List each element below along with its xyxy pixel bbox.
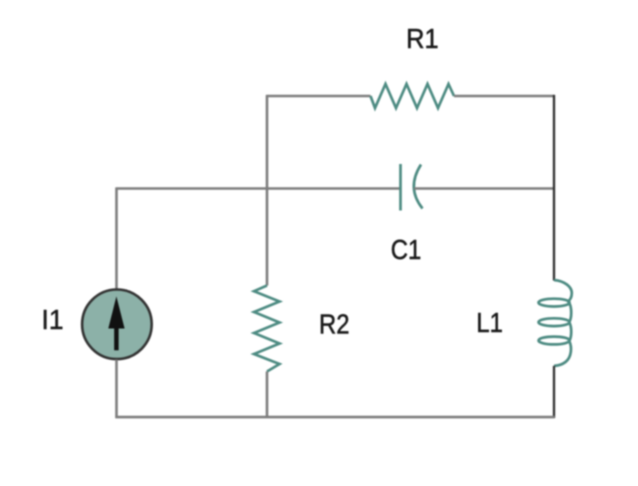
svg-text:I1: I1 <box>42 304 64 335</box>
resistor R2 <box>254 286 280 372</box>
wire: middle wire right segment <box>414 187 554 190</box>
current source I1 <box>82 290 152 360</box>
capacitor C1 <box>401 164 423 211</box>
inductor L1 <box>539 280 572 366</box>
wire: top wire left segment <box>267 95 371 98</box>
svg-text:R1: R1 <box>406 23 439 54</box>
svg-text:L1: L1 <box>476 307 503 338</box>
wire: left wire upper segment <box>115 187 118 291</box>
wire: R2 branch lower segment <box>266 372 269 419</box>
wire: right wire lower segment <box>553 366 555 418</box>
wire: right wire upper segment <box>553 95 555 281</box>
svg-text:R2: R2 <box>319 308 350 339</box>
svg-text:C1: C1 <box>391 234 422 265</box>
wire: bottom wire <box>115 416 554 419</box>
wire: middle wire left segment <box>117 187 401 190</box>
wire: left wire lower segment <box>115 360 118 419</box>
wire: top wire right segment <box>454 95 555 98</box>
resistor R1 <box>371 84 455 108</box>
wire: R2 branch upper segment <box>266 95 269 286</box>
